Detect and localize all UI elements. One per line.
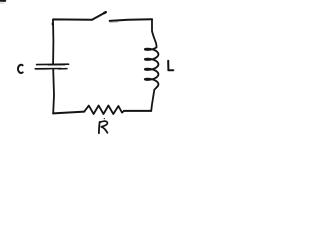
stray ink dot above label R [103,118,106,120]
capacitor C bottom plate right dash [59,68,68,70]
label L [168,61,173,71]
capacitor C top plate [37,63,69,65]
label R bowl and leg [100,121,108,133]
switch lever tip blob [104,11,106,14]
resistor R zigzag [84,106,124,115]
capacitor C bottom plate [35,68,61,70]
switch right contact faint understroke [110,21,118,23]
stray mark top-left corner [0,0,5,2]
capacitor C bottom plate faint fuzz [37,69,50,71]
label R stem [98,122,101,133]
wire: left vertical, top corner down to capacitor top plate [52,20,54,64]
wire: bottom-left segment to resistor [53,112,84,114]
corner overdraw tick below top-left corner [51,23,53,25]
wire: right vertical, bottom corner up to inductor coil end [151,87,157,111]
capacitor C top plate overdraw [48,64,65,66]
stray faint smudge below corner mark [0,2,4,4]
wire: switch right contact to top-right corner [110,19,152,21]
wire: top-left segment from left corner to switch pivot [53,18,92,20]
wire: bottom-right segment from resistor to bottom-right corner [124,110,151,112]
wire: left vertical, capacitor bottom plate down to bottom-left corner [52,69,55,113]
switch lever SW [92,12,106,19]
label C [18,65,23,73]
wire: right vertical, top corner down to inductor coil start [152,19,156,47]
inductor L coil [145,47,159,86]
